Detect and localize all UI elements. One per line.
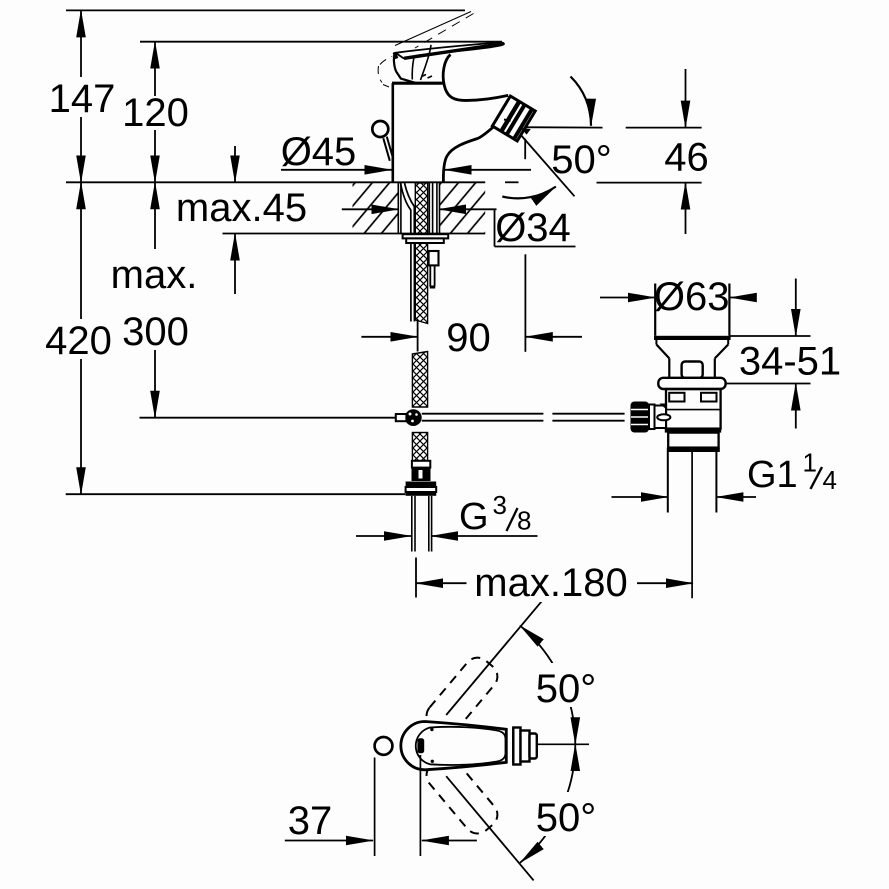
svg-text:max.: max. — [111, 253, 198, 297]
threaded stud — [410, 243, 412, 322]
svg-text:Ø45: Ø45 — [281, 130, 357, 174]
aerator horizontal reference — [515, 126, 603, 128]
braid segment 3 — [412, 433, 427, 461]
dome design curve 1 — [412, 58, 414, 79]
90 right extension line (spray centerline) — [524, 254, 526, 351]
centerline — [533, 743, 589, 745]
G3/8 connector — [412, 461, 430, 468]
pop-up rod end cap — [396, 414, 407, 421]
tailpipe centerline / max180 right extension — [691, 452, 693, 598]
svg-text:90: 90 — [446, 316, 491, 360]
inner outline — [416, 727, 506, 765]
flange — [658, 378, 725, 389]
svg-text:Ø63: Ø63 — [654, 275, 730, 319]
rod bracket — [429, 251, 439, 265]
shank thread lines — [397, 182, 399, 233]
svg-text:8: 8 — [517, 506, 531, 536]
braid segment 2 — [412, 352, 427, 408]
pop-up knob + rod — [372, 121, 388, 137]
max180 left extension line — [415, 558, 417, 598]
svg-text:max.180: max.180 — [474, 561, 627, 605]
body outline — [401, 722, 506, 770]
svg-text:37: 37 — [288, 799, 333, 843]
svg-text:34-51: 34-51 — [739, 340, 841, 384]
ball joint — [405, 409, 422, 426]
svg-text:46: 46 — [664, 136, 709, 180]
shoulders + taper — [655, 340, 657, 345]
label max.180 — [470, 561, 632, 605]
pop-up rod horizontal — [422, 413, 544, 415]
dots — [430, 728, 433, 731]
dim max300 — [154, 182, 156, 249]
top knob — [682, 362, 703, 379]
dim O34 leader — [342, 208, 399, 210]
90 left extension line (hose centerline) — [417, 320, 419, 352]
dim 147 — [80, 10, 82, 77]
svg-text:147: 147 — [49, 77, 116, 121]
dim 46 — [626, 127, 702, 129]
dome design curve 2 — [421, 45, 432, 80]
svg-text:4: 4 — [823, 465, 837, 495]
37 dim — [374, 758, 376, 857]
svg-text:max.45: max.45 — [176, 186, 307, 230]
aerator leader wedge — [521, 128, 531, 134]
svg-text:420: 420 — [45, 319, 112, 363]
ghost handles dashed — [421, 652, 502, 740]
dim O63 — [600, 297, 655, 299]
svg-text:Ø34: Ø34 — [495, 206, 571, 250]
ghost blade top line — [395, 12, 471, 46]
dome small dashes — [422, 75, 433, 79]
braid in hole — [415, 183, 427, 234]
aerator rings — [513, 728, 520, 765]
O34 leader bracket vertical — [494, 209, 496, 246]
max300 bottom line — [140, 417, 396, 419]
aerator face tick — [504, 120, 511, 121]
upper 50deg ray — [446, 598, 544, 715]
svg-text:300: 300 — [122, 310, 189, 354]
dim 90 — [361, 336, 417, 338]
solid blade — [396, 42, 504, 58]
svg-text:50°: 50° — [536, 667, 597, 711]
svg-text:50°: 50° — [536, 796, 597, 840]
spout neck top — [443, 55, 508, 101]
dome root heavy corner — [394, 53, 397, 59]
braid segment 1 — [415, 243, 427, 324]
tailpipe — [667, 452, 669, 513]
extension line top (147) — [66, 9, 465, 11]
dim 420 — [80, 182, 82, 319]
body — [666, 389, 721, 429]
hatched deck right of hole — [440, 182, 485, 233]
svg-text:1: 1 — [803, 448, 817, 478]
dim max45 arrows — [234, 146, 236, 182]
body left edge — [391, 83, 394, 182]
dim G3/8 — [356, 535, 411, 537]
mounting surface line — [66, 181, 485, 183]
body top edge — [392, 82, 443, 85]
label O34 — [495, 206, 572, 250]
spout underside — [443, 127, 493, 182]
mounting surface line segment 3 / 46 lower extension — [597, 182, 702, 184]
spray axis diagonal — [520, 134, 575, 196]
ghost dome dashes — [378, 57, 392, 88]
50deg arcs view1 — [571, 77, 592, 126]
svg-text:G1: G1 — [747, 454, 798, 496]
label 50deg top-view upper — [528, 663, 620, 711]
svg-text:3: 3 — [493, 490, 507, 520]
ghost blade dashed lower — [415, 14, 474, 49]
slot — [417, 738, 424, 753]
O34 label underline — [495, 246, 576, 248]
G3/8 pipe — [411, 496, 413, 552]
hose curves in hole — [401, 183, 411, 234]
plug — [654, 284, 656, 336]
slab bottom line (max.45) — [223, 233, 486, 235]
svg-text:120: 120 — [122, 91, 189, 135]
dim O45 — [281, 169, 392, 171]
dim 120 — [154, 42, 156, 96]
dim G1 1/4 — [612, 496, 668, 498]
upper 50deg arc — [520, 626, 575, 745]
dome — [394, 53, 417, 83]
spray axis stub below aerator — [524, 139, 526, 160]
label 50deg top-view lower — [528, 792, 620, 840]
lower 50deg ray — [446, 776, 533, 880]
420 bottom line — [66, 493, 406, 495]
svg-text:G: G — [459, 496, 489, 538]
collar — [512, 729, 514, 764]
aerator block — [492, 96, 535, 141]
svg-text:50°: 50° — [551, 138, 612, 182]
mounting nut — [406, 238, 444, 243]
lower 50deg arc — [520, 744, 575, 863]
hatched deck left of hole — [353, 182, 399, 233]
knob circle — [375, 737, 393, 755]
mounting washer — [403, 234, 449, 238]
knurled knob + link — [631, 402, 650, 433]
coupling bands — [665, 429, 721, 433]
mounting surface line segment 2 — [505, 181, 519, 183]
extension line 120 — [140, 41, 502, 43]
dim 34-51 — [730, 335, 811, 337]
